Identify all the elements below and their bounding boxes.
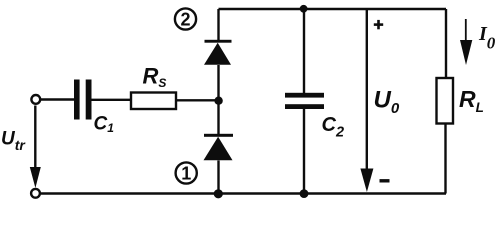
- svg-text:U0: U0: [374, 87, 400, 117]
- svg-text:2: 2: [180, 10, 190, 30]
- svg-text:RS: RS: [143, 63, 167, 90]
- svg-text:1: 1: [181, 164, 191, 184]
- svg-text:RL: RL: [459, 86, 484, 115]
- svg-text:C1: C1: [94, 113, 115, 135]
- svg-text:I0: I0: [478, 23, 496, 52]
- svg-text:Utr: Utr: [1, 128, 26, 153]
- svg-text:C2: C2: [322, 114, 345, 140]
